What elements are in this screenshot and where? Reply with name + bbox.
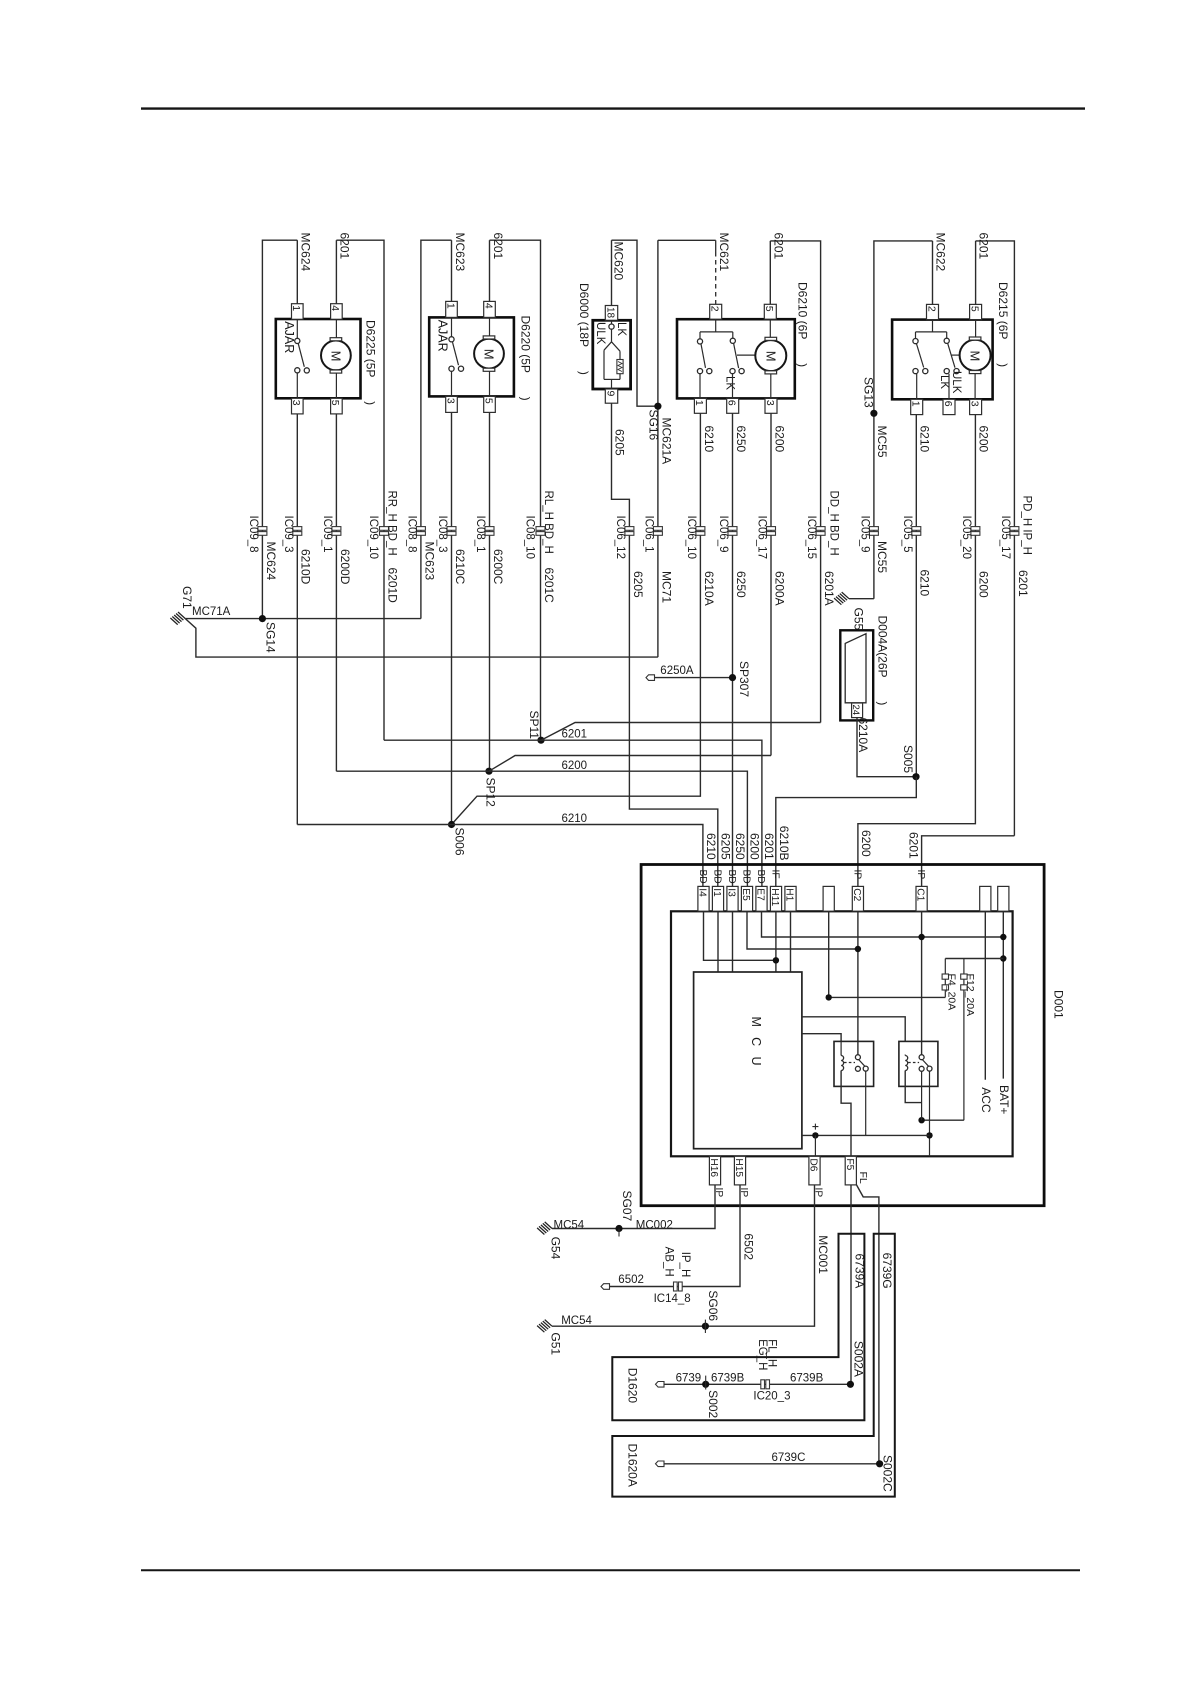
svg-text:6250: 6250 [734, 426, 748, 453]
pin C1 D001 top [916, 886, 927, 911]
svg-text:6250A: 6250A [660, 665, 694, 677]
wire MC55 to ground G55 [849, 598, 874, 600]
junction SG07 [615, 1225, 622, 1232]
junction SG06 [702, 1323, 709, 1330]
svg-text:M C U: M C U [749, 1017, 763, 1069]
svg-text:H15: H15 [733, 1158, 744, 1177]
stub 6502 terminal [601, 1284, 610, 1290]
svg-text:6210B: 6210B [777, 826, 791, 861]
motor M D6210 [755, 340, 786, 371]
svg-text:6210D: 6210D [299, 549, 313, 585]
pin C2 D001 top [852, 886, 863, 911]
junction S002 [702, 1381, 709, 1388]
svg-text:ULK: ULK [594, 322, 606, 345]
svg-text:IC05_9: IC05_9 [858, 516, 870, 553]
pin 2 D6215 [927, 304, 939, 319]
wire 6739 to S002A [664, 1383, 851, 1385]
block MCU [694, 972, 802, 1149]
svg-text:6210A: 6210A [702, 571, 716, 606]
svg-text:IC06_12: IC06_12 [614, 516, 626, 559]
inline connector IC08_3 [447, 527, 456, 531]
inline connector IC05_9 [869, 527, 878, 531]
svg-text:6200: 6200 [859, 830, 873, 857]
junction SG16 [654, 403, 661, 410]
svg-text:RR_H BD_H: RR_H BD_H [385, 491, 397, 556]
pin 1 D6220 [446, 301, 458, 317]
wire 6739A from F5 [850, 1185, 852, 1384]
svg-text:4: 4 [329, 305, 341, 311]
ground G71 [178, 612, 185, 619]
wire MC624 loop left [262, 240, 297, 618]
relay left switch [855, 1055, 860, 1060]
relay right switch [919, 1055, 924, 1060]
pin D6 D001 bottom [809, 1156, 820, 1185]
svg-text:D1620: D1620 [625, 1368, 639, 1404]
pin I3 D001 top [727, 886, 738, 911]
wire ground bus lower [185, 619, 658, 658]
pin 3 D6215 [970, 399, 982, 414]
svg-text:E5: E5 [740, 888, 751, 901]
pin H15 D001 bottom [734, 1156, 745, 1185]
wire MC71A [185, 618, 421, 620]
connector D1620A box [612, 1234, 895, 1497]
svg-text:5: 5 [763, 306, 775, 312]
svg-text:I4: I4 [697, 888, 708, 897]
svg-text:6205: 6205 [631, 571, 645, 598]
wire MC002 from H16 [552, 1185, 715, 1229]
svg-text:6210C: 6210C [453, 549, 467, 585]
svg-text:DD_H BD_H: DD_H BD_H [828, 491, 840, 556]
svg-text:SG07: SG07 [620, 1191, 634, 1222]
svg-text:6201: 6201 [771, 233, 785, 260]
connector D6210 box [677, 319, 795, 398]
junction S006 [448, 821, 455, 828]
connector D1620 box [612, 1234, 864, 1421]
svg-text:9: 9 [604, 391, 616, 397]
connector D6220 box [429, 317, 514, 396]
pin 3 D6220 [446, 396, 458, 412]
motor M D6220 [489, 318, 491, 336]
wire relay right contact to F12 node [921, 1071, 923, 1120]
wire 6210A from pin1 [452, 413, 701, 824]
svg-text:MC623: MC623 [422, 542, 436, 581]
svg-text:MC54: MC54 [561, 1315, 592, 1327]
svg-text:LK: LK [723, 376, 735, 390]
pin H11 D001 top [770, 886, 781, 911]
svg-text:IP: IP [915, 870, 926, 880]
svg-text:MC624: MC624 [299, 233, 313, 272]
wire 6210 bus [297, 825, 703, 887]
pin H1 D001 top [785, 886, 796, 911]
svg-text:IC06_10: IC06_10 [685, 516, 697, 559]
pin 4 D6225 [331, 304, 343, 320]
wire 6739G from F5 [856, 1185, 879, 1464]
ground G54 [545, 1222, 552, 1229]
svg-text:6201: 6201 [977, 233, 991, 260]
svg-text:S005: S005 [901, 745, 915, 773]
svg-text:H16: H16 [708, 1158, 719, 1177]
connector D6000 box [593, 320, 631, 389]
svg-text:FL: FL [857, 1172, 869, 1184]
svg-text:IC09_10: IC09_10 [367, 516, 379, 559]
svg-text:IC05_5: IC05_5 [901, 516, 913, 553]
pin 18 D6000 [605, 306, 617, 321]
svg-text:6739B: 6739B [711, 1373, 745, 1385]
wire 6205 from pin9 [612, 403, 718, 886]
switch D6210 [715, 319, 717, 332]
svg-text:F4_20A: F4_20A [946, 974, 958, 1011]
svg-text:5: 5 [482, 398, 494, 404]
svg-text:6250: 6250 [733, 833, 747, 860]
wire H11 internal [775, 911, 777, 972]
page top rule [141, 107, 1085, 109]
pin 2 D6210 [710, 304, 722, 319]
svg-text:G55: G55 [852, 608, 866, 631]
ground G51 [545, 1320, 552, 1327]
connector D6225 box [276, 319, 361, 398]
pin I4 D001 top [698, 886, 709, 911]
svg-text:ACC: ACC [979, 1087, 993, 1113]
ground G55 [842, 592, 849, 599]
svg-text:6201C: 6201C [542, 568, 556, 604]
wire E5 internal [747, 911, 858, 949]
svg-text:3: 3 [968, 401, 980, 407]
svg-text:SP11: SP11 [527, 711, 541, 740]
svg-text:IC20_3: IC20_3 [753, 1390, 790, 1402]
inline connector IC09_3 [293, 527, 302, 531]
wire 6250 from pin6 [732, 413, 734, 886]
svg-text:AJAR: AJAR [282, 321, 296, 353]
motor M D6225 [335, 320, 337, 338]
svg-text:M: M [328, 351, 343, 362]
svg-text:6200: 6200 [772, 426, 786, 453]
wire MCU to left relay coil [802, 1034, 841, 1042]
inline connector IC05_5 [912, 527, 921, 531]
inline connector IC20_3 [761, 1380, 765, 1389]
svg-text:6250: 6250 [734, 571, 748, 598]
svg-text:2: 2 [709, 306, 721, 312]
svg-text:2: 2 [925, 306, 937, 312]
svg-text:F12_20A: F12_20A [964, 974, 976, 1017]
wire 6201 bus [384, 740, 762, 886]
wire C1 internal [921, 911, 923, 1054]
svg-text:MC620: MC620 [612, 242, 626, 281]
svg-text:6201D: 6201D [385, 568, 399, 604]
svg-text:6502: 6502 [618, 1274, 644, 1286]
pin E7 D001 top [756, 886, 767, 911]
svg-text:IP_H: IP_H [679, 1252, 691, 1278]
wire 6201 to pin C1 [922, 836, 1015, 887]
wire MC623 riser pin1 [451, 240, 453, 301]
wire 6201 riser pin4 [335, 240, 337, 304]
wire SP12 branch to 6200A [489, 756, 771, 772]
svg-text:IC06_1: IC06_1 [642, 516, 654, 553]
wire BAT+ rail [1002, 911, 1004, 1078]
svg-text:6210: 6210 [704, 833, 718, 860]
inline connector IC06_9 [728, 527, 737, 531]
svg-text:1: 1 [290, 305, 302, 311]
wire 6210A from D004A pin24 [857, 718, 916, 777]
svg-text:IC06_15: IC06_15 [805, 516, 817, 559]
wire I4 internal [704, 911, 776, 960]
svg-text:6201: 6201 [338, 233, 352, 260]
svg-text:EG_H: EG_H [756, 1339, 768, 1370]
junction SP307 [729, 674, 736, 681]
wire MC621A vertical [657, 240, 659, 657]
svg-text:SG16: SG16 [646, 410, 660, 441]
wire F12 to relay [922, 1119, 964, 1121]
wire 6200A from pin3 [770, 413, 772, 755]
svg-text:6200: 6200 [977, 426, 991, 453]
svg-text:S002: S002 [706, 1390, 720, 1418]
key switch D6000 [611, 320, 613, 324]
wire relay left contact down [865, 1071, 867, 1135]
connector D004A body [845, 634, 866, 703]
wire nc pin internal to F4 [829, 911, 946, 997]
wire 6210B to pin H11 [776, 777, 917, 887]
wire MC001 from D6 [552, 1185, 815, 1326]
wire H1 internal [790, 911, 792, 972]
wire 6201 riser D6210 [769, 241, 771, 304]
pin 1 D6215 [911, 399, 923, 414]
unit D001 outer box [641, 865, 1044, 1206]
svg-text:BD: BD [712, 870, 723, 884]
fuse F4_20A [944, 959, 946, 998]
svg-text:PD_H IP_H: PD_H IP_H [1020, 496, 1032, 555]
svg-text:MC54: MC54 [554, 1220, 585, 1232]
svg-text:D6000 (18P ): D6000 (18P ) [577, 283, 591, 375]
svg-text:4: 4 [482, 303, 494, 309]
svg-text:D6215 (6P ): D6215 (6P ) [996, 282, 1010, 367]
page bottom rule [141, 1569, 1080, 1571]
svg-text:MC624: MC624 [264, 542, 278, 581]
wire MCU to right relay coil [802, 1017, 905, 1042]
svg-text:D6225 (5P ): D6225 (5P ) [364, 320, 378, 405]
inline connector IC06_15 [816, 527, 825, 531]
svg-text:MC621: MC621 [717, 233, 731, 272]
svg-text:6210: 6210 [918, 426, 932, 453]
svg-text:6739B: 6739B [790, 1373, 824, 1385]
wire 6200D from pin5 [335, 414, 337, 771]
svg-text:6201: 6201 [1016, 570, 1030, 597]
wire 6200 from pin3 D6215 [858, 415, 976, 887]
pin 1 D6225 [292, 304, 304, 320]
stub 6250A [654, 677, 733, 679]
wire relay right output [929, 1071, 931, 1156]
wire MC620 loop [611, 240, 613, 305]
svg-text:S002A: S002A [851, 1341, 865, 1377]
svg-text:1: 1 [444, 303, 456, 309]
svg-text:M: M [763, 351, 778, 362]
svg-text:1: 1 [693, 400, 705, 406]
svg-text:AB_H: AB_H [662, 1247, 674, 1277]
svg-text:LK: LK [615, 322, 627, 336]
svg-text:6210: 6210 [562, 813, 588, 825]
svg-text:SG13: SG13 [862, 377, 876, 408]
svg-text:6201: 6201 [906, 832, 920, 859]
svg-text:SG14: SG14 [264, 622, 278, 653]
svg-text:IC05_17: IC05_17 [999, 516, 1011, 559]
pin 6 D6210 [727, 398, 739, 413]
svg-text:IC09_1: IC09_1 [321, 516, 333, 553]
wire ACC rail [984, 911, 986, 1080]
wire MC623 loop left [421, 240, 452, 618]
pin E5 D001 top [741, 886, 752, 911]
svg-text:6210: 6210 [918, 570, 932, 597]
svg-text:BD: BD [755, 870, 766, 884]
relay right box [899, 1041, 938, 1086]
svg-text:6739C: 6739C [772, 1452, 806, 1464]
svg-text:SP307: SP307 [737, 661, 751, 697]
pin 1 D6210 [694, 398, 706, 413]
svg-text:S002C: S002C [881, 1455, 895, 1492]
svg-text:ULK: ULK [950, 371, 962, 394]
svg-text:AJAR: AJAR [435, 320, 449, 352]
svg-text:IC08_3: IC08_3 [436, 516, 448, 553]
svg-text:6205: 6205 [613, 429, 627, 456]
inline connector IC08_8 [416, 527, 425, 531]
connector D6215 box [892, 320, 993, 400]
svg-text:6200C: 6200C [491, 549, 505, 585]
svg-text:6201A: 6201A [822, 571, 836, 606]
svg-text:6200: 6200 [748, 833, 762, 860]
svg-text:5: 5 [968, 306, 980, 312]
junction SP12 [485, 768, 492, 775]
svg-text:18: 18 [604, 307, 615, 319]
svg-text:5: 5 [329, 400, 341, 406]
svg-text:6205: 6205 [719, 833, 733, 860]
wire h2 fuse feed [945, 958, 1003, 960]
svg-text:IC08_1: IC08_1 [474, 516, 486, 553]
svg-text:24: 24 [850, 705, 861, 716]
ajar switch D6225 [296, 320, 298, 339]
inline connector IC08_10 [536, 527, 545, 531]
svg-text:G51: G51 [549, 1332, 563, 1355]
wire 6201 riser D6215 [975, 241, 977, 306]
svg-text:6739: 6739 [676, 1373, 702, 1385]
wire relay right coil merge [905, 1071, 921, 1103]
svg-text:MC55: MC55 [875, 541, 889, 573]
inline connector IC06_10 [696, 527, 705, 531]
svg-text:H1: H1 [784, 888, 795, 901]
wire 6201 riser pin4 D6220 [489, 240, 491, 301]
svg-text:IC08_8: IC08_8 [405, 516, 417, 553]
svg-text:6502: 6502 [741, 1233, 755, 1260]
pin 5 D6215 [970, 304, 982, 319]
svg-text:RL_H BD_H: RL_H BD_H [542, 491, 554, 554]
svg-text:D004A(26P ): D004A(26P ) [875, 616, 889, 706]
svg-text:IC06_9: IC06_9 [717, 516, 729, 553]
junction SG14 [259, 615, 266, 622]
pin nc D001 top [980, 886, 991, 911]
svg-text:BD: BD [697, 870, 708, 884]
pin 5 D6225 [331, 398, 343, 414]
pin nc D001 top [823, 886, 834, 911]
pin 3 D6210 [765, 398, 777, 413]
relay left coil [841, 1056, 844, 1071]
svg-text:BD: BD [741, 870, 752, 884]
svg-text:6200A: 6200A [772, 571, 786, 606]
svg-text:IC08_10: IC08_10 [524, 516, 536, 559]
svg-text:6210: 6210 [702, 426, 716, 453]
svg-text:D6: D6 [808, 1158, 819, 1171]
junction S002A [847, 1381, 854, 1388]
fuse F12_20A [963, 959, 965, 1121]
svg-text:1: 1 [910, 401, 922, 407]
svg-text:SP12: SP12 [483, 778, 497, 808]
svg-text:6201: 6201 [491, 233, 505, 260]
svg-text:IC09_8: IC09_8 [247, 516, 259, 553]
inline connector IC09_8 [258, 527, 267, 531]
svg-text:MC621A: MC621A [659, 418, 673, 465]
svg-text:I3: I3 [726, 888, 737, 897]
svg-text:IF: IF [770, 870, 781, 879]
wire 6201 loop right D6225 [336, 240, 384, 740]
svg-text:6200: 6200 [562, 760, 588, 772]
svg-text:MC622: MC622 [934, 233, 948, 272]
wire SP11 branch to 6201A [541, 723, 821, 741]
unit D001 inner box [671, 911, 1013, 1156]
inline connector IC09_10 [380, 527, 389, 531]
svg-text:6200: 6200 [977, 571, 991, 598]
svg-text:F5: F5 [844, 1158, 855, 1170]
svg-text:6201: 6201 [562, 729, 588, 741]
wire 6502 from H15 [609, 1185, 740, 1287]
svg-text:S006: S006 [453, 828, 467, 856]
svg-text:BD: BD [726, 870, 737, 884]
wire 6210C from pin3 [451, 412, 453, 824]
wire common bus h1135 [802, 1134, 930, 1136]
wire D6 internal [814, 1135, 816, 1156]
motor M D6215 [960, 340, 991, 371]
pin 9 D6000 [605, 389, 617, 403]
junction SG13 [870, 410, 877, 417]
wire 6210 from pin1 D6215 [915, 415, 917, 777]
junction S002C [876, 1460, 883, 1467]
svg-text:IC14_8: IC14_8 [654, 1293, 691, 1305]
pin I1 D001 top [712, 886, 723, 911]
svg-text:C1: C1 [915, 888, 926, 901]
svg-text:MC002: MC002 [636, 1219, 673, 1231]
svg-text:D001: D001 [1052, 990, 1066, 1019]
svg-text:E7: E7 [755, 888, 766, 901]
svg-text:3: 3 [290, 400, 302, 406]
svg-text:M: M [482, 349, 497, 360]
svg-text:6: 6 [942, 401, 954, 407]
svg-text:D6210 (6P ): D6210 (6P ) [796, 282, 810, 367]
wire MC622 riser [932, 241, 934, 306]
wire I1 internal [717, 911, 719, 972]
wire 6739C [664, 1463, 880, 1465]
pin nc D001 top [998, 886, 1009, 911]
switch D6215 [932, 320, 934, 332]
wire I3 internal [732, 911, 734, 972]
relay left box [834, 1041, 874, 1086]
svg-text:D1620A: D1620A [625, 1444, 639, 1487]
svg-text:IC09_3: IC09_3 [282, 516, 294, 553]
inline connector IC06_1 [653, 527, 662, 531]
svg-text:3: 3 [764, 400, 776, 406]
pin 3 D6225 [292, 398, 304, 414]
svg-text:6200D: 6200D [338, 549, 352, 585]
inline connector IC06_17 [767, 527, 776, 531]
inline connector IC14_8 [674, 1282, 678, 1291]
svg-text:C2: C2 [851, 888, 862, 901]
inline connector IC08_1 [485, 527, 494, 531]
pin F5 D001 bottom [845, 1156, 856, 1185]
svg-text:MC623: MC623 [453, 233, 467, 272]
junction S005 [912, 773, 919, 780]
